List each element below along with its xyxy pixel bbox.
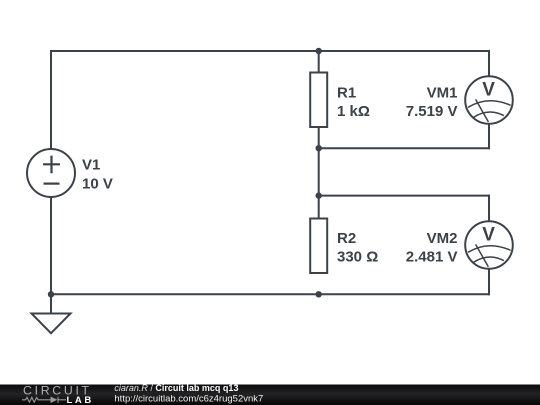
wire: V1 bottom to bottom-left node	[50, 197, 52, 294]
svg-text:VM2: VM2	[427, 230, 458, 247]
node A (top junction)	[316, 48, 322, 54]
svg-text:VM1: VM1	[427, 85, 458, 102]
svg-text:V: V	[482, 225, 495, 246]
resistor R2	[310, 219, 327, 274]
svg-text:LAB: LAB	[67, 395, 94, 405]
svg-text:R1: R1	[337, 85, 356, 102]
svg-text:R2: R2	[337, 230, 356, 247]
CircuitLab logo: resistor + diode symbol	[22, 397, 66, 403]
svg-text:7.519 V: 7.519 V	[406, 103, 458, 120]
wire: bottom horizontal	[51, 293, 489, 295]
wire: top horizontal from left corner to VM1 branch	[51, 50, 489, 52]
footer bar	[0, 385, 540, 405]
wire: VM1 top drop	[488, 51, 490, 76]
wire: VM2 top drop	[488, 196, 490, 222]
node C (R2 top junction)	[316, 192, 322, 198]
resistor R1	[310, 73, 327, 128]
wire: mid horizontal 2 (node C to VM2 top)	[319, 195, 489, 197]
wire: middle vertical, R1 bottom through nodes B,C to R2 top	[318, 127, 320, 219]
voltmeter VM1	[465, 76, 513, 124]
wire: VM1 bottom to mid wire 1	[488, 124, 490, 148]
node E (ground junction)	[48, 291, 54, 297]
node B (R1 bottom junction)	[316, 145, 322, 151]
svg-text:330 Ω: 330 Ω	[337, 249, 378, 266]
wire: middle vertical, node A to R1 top	[318, 51, 320, 73]
svg-text:V: V	[482, 80, 495, 101]
svg-text:V1: V1	[82, 157, 100, 174]
svg-text:http://circuitlab.com/c6z4rug5: http://circuitlab.com/c6z4rug52vnk7	[114, 394, 263, 405]
wire: ground stem	[50, 294, 52, 313]
svg-text:10 V: 10 V	[82, 176, 113, 193]
voltage source V1	[27, 149, 75, 197]
wire: VM2 bottom to bottom wire	[488, 269, 490, 295]
ground	[32, 314, 71, 334]
voltmeter VM2	[465, 221, 513, 269]
wire: left vertical from top-left corner to V1 top	[50, 51, 52, 148]
node D (bottom junction)	[316, 291, 322, 297]
svg-text:ciaran.R / Circuit lab mcq q13: ciaran.R / Circuit lab mcq q13	[114, 383, 238, 393]
svg-text:1 kΩ: 1 kΩ	[337, 103, 370, 120]
svg-text:2.481 V: 2.481 V	[406, 249, 458, 266]
wire: mid horizontal 1 (node B to VM1 bottom)	[319, 147, 489, 149]
